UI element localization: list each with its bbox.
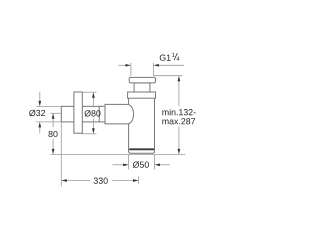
Ø32 extension line top: [36, 105, 61, 107]
cup bottom dark band: [129, 148, 154, 150]
top nut flange G1 1/4: [129, 77, 155, 83]
G1 1/4 extension line left: [130, 63, 132, 76]
G1 1/4 leader right arrow: [159, 64, 185, 66]
pipe centerline tick: [50, 112, 60, 114]
330 dimension line left with left arrow: [66, 180, 90, 182]
Ø80 dimension line upper with up arrow: [92, 96, 94, 108]
Ø50 left arrow pointing right: [113, 164, 124, 166]
label Ø50: [133, 161, 149, 168]
min/max top extension line: [153, 75, 182, 77]
label Ø32: [29, 110, 45, 117]
wall flange rosette: [74, 92, 82, 133]
G1 1/4 dimension left arrow: [118, 64, 126, 66]
horizontal pipe: [61, 106, 105, 122]
neck (threaded section): [134, 83, 150, 92]
label 80: [48, 131, 57, 137]
330 left extension line (pipe end): [60, 122, 62, 186]
Ø50 extension line left: [128, 155, 130, 170]
Ø32 extension line bottom: [36, 121, 61, 123]
Ø50 extension line right: [154, 155, 156, 170]
label min.132-max.287: [162, 109, 195, 115]
Ø80 dimension line lower with down arrow: [92, 119, 94, 131]
Ø80 extension line bottom: [81, 133, 97, 135]
Ø32 upper arrow pointing down: [39, 92, 41, 102]
collar (body top ring): [128, 92, 156, 98]
label Ø80: [85, 110, 101, 117]
min/max dimension line lower with down arrow: [178, 127, 180, 151]
compression ring joint: [98, 106, 100, 122]
inlet nut (rounded cap into body): [105, 104, 134, 124]
label 330: [94, 178, 108, 184]
bottle body (cup): [129, 98, 155, 153]
Ø32 lower arrow pointing up: [39, 127, 41, 134]
long bottom extension line (cup bottom datum): [51, 154, 186, 156]
G1 1/4 extension line right: [152, 63, 154, 76]
min/max dimension line upper with up arrow: [178, 79, 180, 106]
label G1 1/4: [160, 55, 171, 61]
Ø80 extension line top: [81, 91, 97, 93]
Ø50 right arrow pointing left: [159, 164, 170, 166]
330 right extension tick: [138, 177, 140, 184]
80 dimension line upper with up arrow: [52, 117, 54, 128]
80 dimension line lower with down arrow: [52, 139, 54, 151]
330 dimension line right with right arrow: [112, 180, 134, 182]
